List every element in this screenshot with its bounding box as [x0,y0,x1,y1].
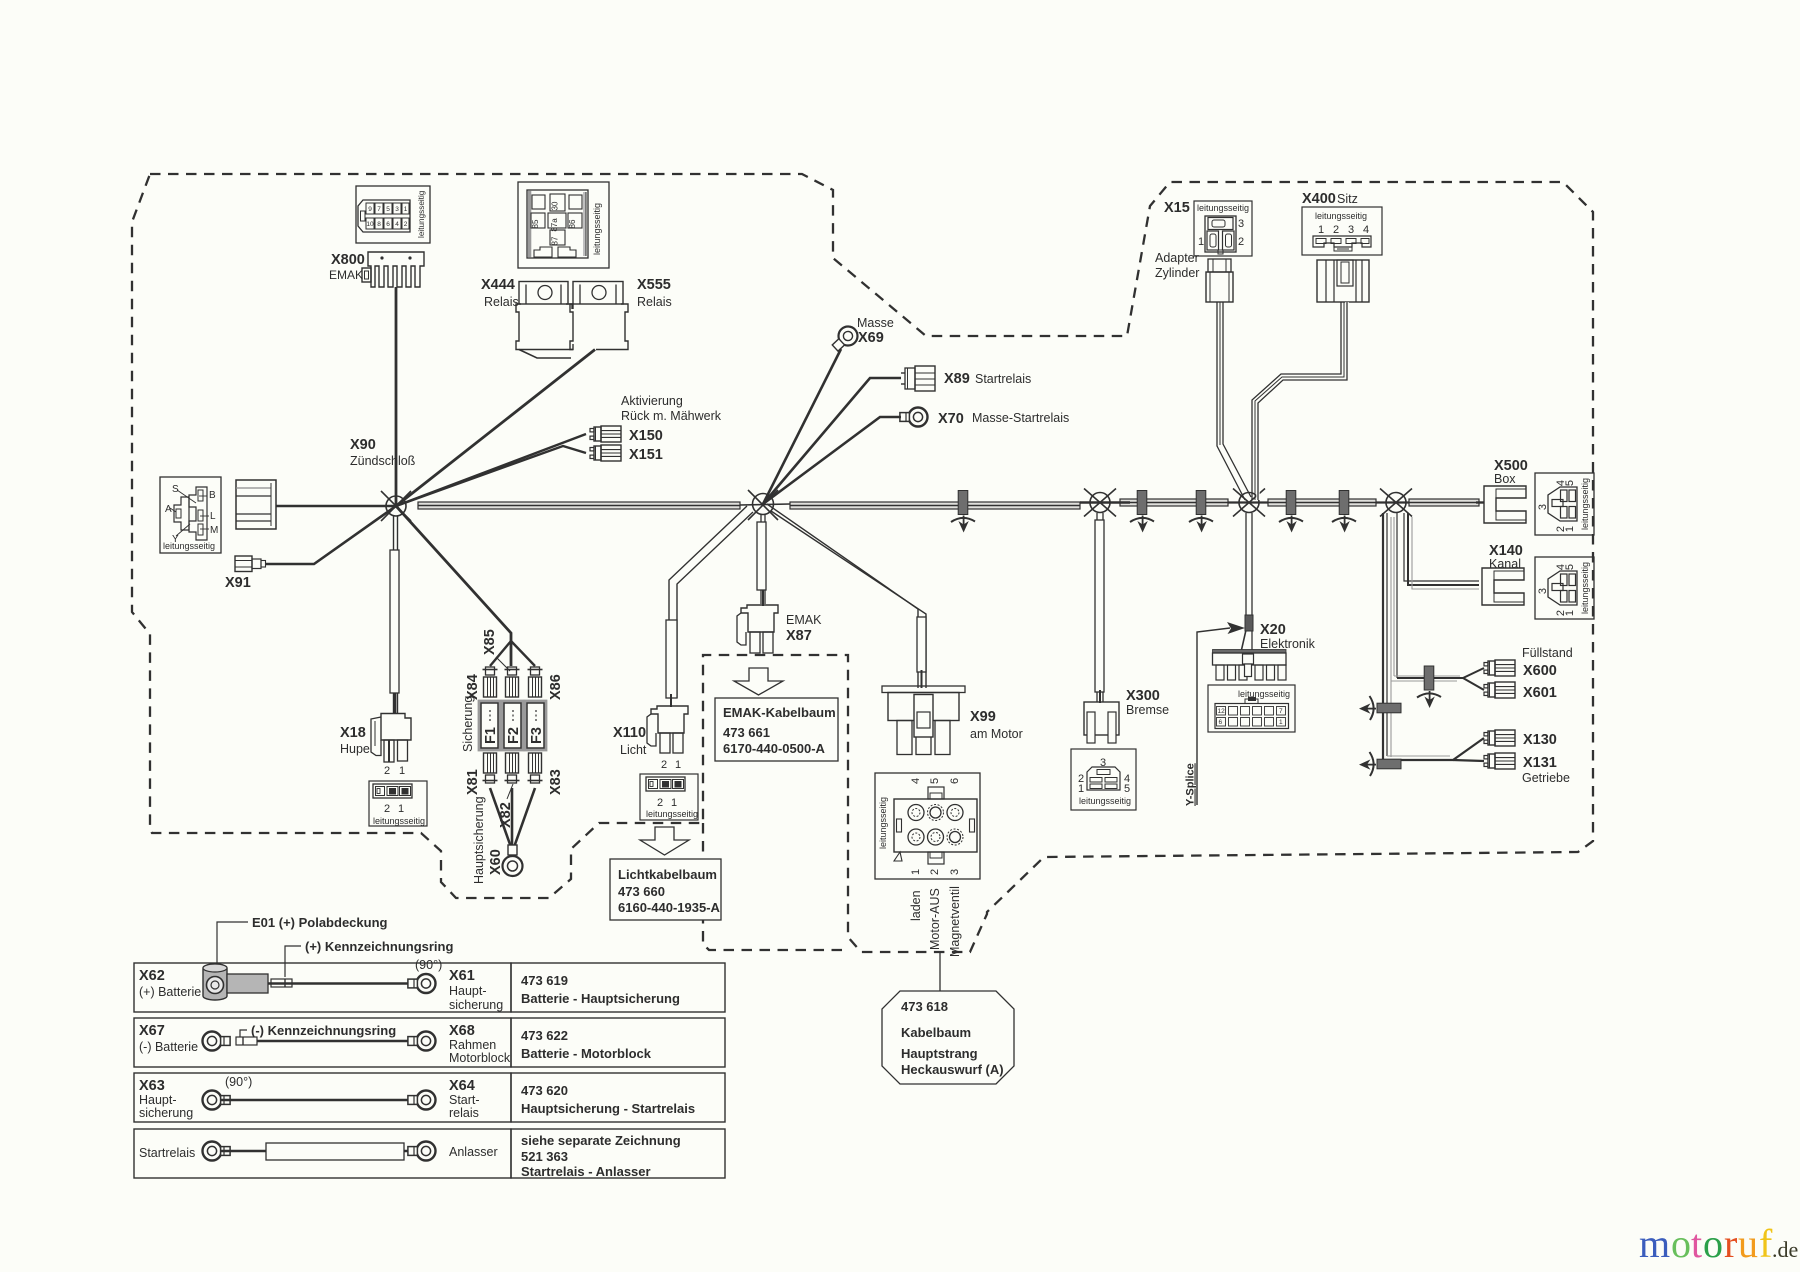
svg-text:Anlasser: Anlasser [449,1145,498,1159]
svg-text:9: 9 [368,206,372,213]
wire row1 [268,982,416,984]
relay pin box [518,182,609,268]
connector X20 [1213,622,1316,680]
svg-text:Zündschloß: Zündschloß [350,454,416,468]
X800 pin box [356,186,430,243]
svg-text:leitungsseitig: leitungsseitig [373,816,425,826]
svg-text:Hupe: Hupe [340,742,370,756]
svg-text:X89: X89 [944,371,970,387]
svg-text:Rück m. Mähwerk: Rück m. Mähwerk [621,409,722,423]
svg-text:X68: X68 [449,1023,475,1039]
svg-text:5: 5 [929,778,941,784]
svg-text:Motorblock: Motorblock [449,1051,511,1065]
svg-text:2: 2 [661,759,667,771]
svg-text:leitungsseitig: leitungsseitig [878,797,888,849]
svg-text:Kanal: Kanal [1489,557,1521,571]
central hub node [748,490,778,520]
svg-text:1: 1 [671,797,677,809]
svg-text:85: 85 [531,219,540,228]
svg-text:Box: Box [1494,472,1516,486]
bus line through central hub [740,504,790,505]
svg-text:X555: X555 [637,277,671,293]
connector X130 [1484,730,1515,746]
svg-text:2: 2 [1238,236,1244,248]
svg-text:X400: X400 [1302,191,1336,207]
svg-text:EMAK-Kabelbaum: EMAK-Kabelbaum [723,705,836,720]
connector X151 [590,445,621,461]
box Lichtkabelbaum [610,859,721,920]
svg-text:5: 5 [386,206,390,213]
svg-text:leitungsseitig: leitungsseitig [1197,203,1249,213]
wire Magnetventil pocket to octagon [939,952,941,991]
svg-text:30: 30 [551,201,560,210]
svg-text:Relais: Relais [637,295,672,309]
svg-text:473 661: 473 661 [723,725,770,740]
svg-text:4: 4 [1363,224,1369,236]
wires X81 X82 X83 to X60 [490,788,512,850]
svg-text:1: 1 [1279,719,1283,726]
svg-text:sicherung: sicherung [449,998,503,1012]
X20 pin box [1208,685,1295,732]
svg-text:4: 4 [395,221,399,228]
X140 pin box [1535,557,1594,619]
ring terminal X63 [203,1091,231,1110]
wire junction A down to X300 with sleeve [1095,513,1104,703]
svg-text:(+) Kennzeichnungsring: (+) Kennzeichnungsring [305,939,453,954]
X500 pin box [1535,473,1594,535]
svg-text:X61: X61 [449,968,475,984]
svg-text:Füllstand: Füllstand [1522,646,1573,660]
wire relays to left hub [519,350,571,359]
connector X150 [590,426,621,442]
svg-text:X444: X444 [481,277,515,293]
(-) ring marker on wire [236,1037,257,1045]
svg-text:leitungsseitig: leitungsseitig [1079,796,1131,806]
wire branch to X600 X601 [1391,668,1484,690]
svg-text:87a: 87a [550,218,559,232]
svg-text:t: t [1691,1221,1702,1266]
svg-text:Haupt-: Haupt- [139,1093,177,1107]
svg-text:Heckauswurf (A): Heckauswurf (A) [901,1062,1004,1077]
svg-text:Motor-AUS: Motor-AUS [928,888,942,950]
wire X150 to left hub [396,434,586,506]
svg-text:leitungsseitig: leitungsseitig [163,541,215,551]
(+) ring marker on wire [271,979,292,987]
label E01 (+) Polabdeckung with pointer [217,915,388,963]
svg-text:Sitz: Sitz [1337,192,1358,206]
svg-text:X81: X81 [465,769,481,795]
wire junction C bundle down [1383,513,1397,760]
bus line through junction C [1376,501,1409,503]
wire row3 [221,1099,416,1101]
svg-text:Startrelais: Startrelais [975,372,1031,386]
connector X800 [329,252,424,287]
svg-text:Masse: Masse [857,316,894,330]
svg-text:siehe separate Zeichnung: siehe separate Zeichnung [521,1133,681,1148]
wire left hub down to X18 with sleeve [390,516,399,714]
svg-text:7: 7 [377,206,381,213]
ring terminal X68 [408,1032,436,1051]
svg-text:X62: X62 [139,968,165,984]
svg-text:X130: X130 [1523,732,1557,748]
svg-text:Elektronik: Elektronik [1260,637,1316,651]
wire X89 to central hub [763,378,901,504]
svg-text:2: 2 [404,221,408,228]
motoruf.de logo [1639,1221,1798,1266]
arrow to EMAK-Kabelbaum [734,668,783,695]
svg-text:1: 1 [404,206,408,213]
main bus bar junction A to junction B [1080,499,1228,506]
svg-text:3: 3 [395,206,399,213]
connector X99 [882,686,1023,755]
svg-text:Hauptsicherung - Startrelais: Hauptsicherung - Startrelais [521,1101,695,1116]
svg-text:473 618: 473 618 [901,999,948,1014]
wire X151 to left hub [396,446,586,506]
svg-text:X87: X87 [786,628,812,644]
svg-text:EMAK: EMAK [329,268,363,282]
connector X500 [1484,458,1528,523]
cable tie left 2 on bundle [1359,752,1401,776]
wire branch to X130 X131 [1383,738,1484,761]
ring terminal X70 [900,408,928,427]
X90 pin box [160,477,221,553]
left hub node [381,491,411,521]
svg-text:X67: X67 [139,1023,165,1039]
wire branch to X140 [1404,513,1479,589]
svg-text:6170-440-0500-A: 6170-440-0500-A [723,741,826,756]
svg-text:X85: X85 [482,629,498,655]
svg-text:3: 3 [949,869,961,875]
svg-text:3: 3 [1348,224,1354,236]
svg-text:473 660: 473 660 [618,884,665,899]
cable tie on bus 2 [1130,491,1154,533]
svg-text:Hauptsicherung: Hauptsicherung [472,796,486,884]
svg-text:leitungsseitig: leitungsseitig [1238,689,1290,699]
svg-text:2: 2 [1333,224,1339,236]
table row 4 box [134,1129,511,1178]
svg-text:A: A [165,504,172,515]
wire row2 [257,1040,416,1042]
connector X18 [340,714,411,778]
Y-Splice arrow and label [1185,622,1246,806]
bus line through junction B [1228,501,1268,503]
svg-text:5: 5 [1124,783,1130,795]
connector X89 [901,366,935,391]
terminal X83 [528,753,543,783]
svg-text:am Motor: am Motor [970,727,1023,741]
relay X444 [481,277,573,350]
svg-text:F3: F3 [529,727,545,744]
cable tie on bus 1 [951,491,975,533]
svg-text:Getriebe: Getriebe [1522,771,1570,785]
wire central hub to X99 (double line with sleeve) [767,504,926,688]
wire fork to X84 X85 X86 [490,641,511,666]
svg-text:r: r [1724,1221,1737,1266]
junction B [1233,489,1265,517]
svg-text:6: 6 [1219,719,1223,726]
svg-text:12: 12 [1218,708,1226,715]
svg-text:Kabelbaum: Kabelbaum [901,1025,971,1040]
svg-text:1: 1 [1078,783,1084,795]
svg-text:X800: X800 [331,252,365,268]
wire central hub to X110 (double line with sleeve) [666,506,753,707]
svg-text:X83: X83 [548,769,564,795]
label (+) Kennzeichnungsring with pointer [285,939,453,977]
svg-text:6: 6 [386,221,390,228]
svg-text:X15: X15 [1164,200,1190,216]
svg-text:X300: X300 [1126,688,1160,704]
svg-text:(-) Batterie: (-) Batterie [139,1040,198,1054]
svg-text:10: 10 [366,221,374,228]
fuse F3 [525,701,546,750]
arrow to Lichtkabelbaum [640,827,689,855]
svg-text:4: 4 [910,778,922,784]
svg-text:3: 3 [1238,218,1244,230]
svg-text:Y-Splice: Y-Splice [1185,763,1197,806]
terminal X84 [483,667,498,697]
connector X15 [1206,259,1233,302]
svg-text:1: 1 [1198,236,1204,248]
svg-text:Haupt-: Haupt- [449,984,487,998]
svg-text:leitungsseitig: leitungsseitig [646,809,698,819]
Magnetventil pin box [875,773,980,879]
svg-text:Startrelais: Startrelais [139,1146,195,1160]
cable tie on bus 4 [1279,491,1303,533]
main bus bar junction C to X500 [1409,499,1484,506]
connector X110 [613,706,688,771]
cable tie on bus 3 [1189,491,1213,533]
wire X15 to junction B [1217,302,1251,500]
terminal X85 [505,667,520,697]
svg-text:1: 1 [1318,224,1324,236]
connector X300 [1084,688,1169,743]
terminal X81 [483,753,498,783]
svg-text:1: 1 [399,765,405,777]
svg-text:L: L [210,511,216,522]
connector X91 [225,556,266,591]
svg-text:X110: X110 [613,725,646,741]
svg-text:1: 1 [675,759,681,771]
main bus: left segment X90 to left hub [276,505,396,508]
svg-text:6160-440-1935-A: 6160-440-1935-A [618,900,721,915]
svg-text:473 619: 473 619 [521,973,568,988]
main bus bar central-hub to junction A [790,502,1080,509]
fuse F2 [502,701,523,750]
svg-text:2: 2 [384,765,390,777]
svg-text:86: 86 [568,219,577,228]
svg-text:Rahmen: Rahmen [449,1038,496,1052]
wire X91 to left hub [265,506,396,564]
svg-text:Hauptstrang: Hauptstrang [901,1046,978,1061]
svg-text:Zylinder: Zylinder [1155,266,1199,280]
svg-text:sicherung: sicherung [139,1106,193,1120]
svg-text:(-) Kennzeichnungsring: (-) Kennzeichnungsring [251,1023,396,1038]
svg-text:(+) Batterie: (+) Batterie [139,985,201,999]
svg-text:B: B [209,490,216,501]
svg-text:m: m [1639,1221,1670,1266]
svg-text:X60: X60 [488,849,504,875]
cable tie on X600 branch [1417,666,1441,708]
svg-text:Magnetventil: Magnetventil [948,886,962,957]
svg-text:laden: laden [909,890,923,921]
svg-text:473 622: 473 622 [521,1028,568,1043]
battery terminal icon [203,964,268,1000]
wire junction B down to X20 [1241,513,1253,652]
svg-text:X131: X131 [1523,755,1557,771]
fuse F1 [479,701,500,750]
svg-text:87: 87 [551,236,560,245]
junction C [1380,489,1412,517]
connector X87 EMAK [737,605,822,653]
X110 pin box [640,774,698,820]
svg-text:(90°): (90°) [415,958,442,972]
svg-text:Batterie - Hauptsicherung: Batterie - Hauptsicherung [521,991,680,1006]
wire left hub to fuse block [396,506,511,666]
wire X69 to central hub [763,349,841,504]
X400 pin box [1302,207,1382,255]
svg-text:6: 6 [949,778,961,784]
svg-text:7: 7 [1279,708,1283,715]
svg-text:X18: X18 [340,725,366,741]
X15 pin box [1194,201,1252,256]
svg-text:o: o [1703,1221,1723,1266]
svg-text:relais: relais [449,1106,479,1120]
box EMAK-Kabelbaum [715,698,838,761]
svg-text:EMAK: EMAK [786,613,822,627]
ring terminal X69 Masse [829,323,862,355]
main dashed outline [132,174,1593,952]
svg-text:.de: .de [1772,1237,1798,1262]
connector X400 [1317,260,1369,302]
svg-text:X91: X91 [225,575,251,591]
svg-text:X64: X64 [449,1078,475,1094]
svg-text:Bremse: Bremse [1126,703,1169,717]
relay X555 [570,277,672,350]
cable tie on bus 5 [1332,491,1356,533]
ring terminal X60 [503,845,523,876]
table row 1 box [134,963,511,1012]
svg-text:Sicherung: Sicherung [461,696,475,752]
svg-text:521 363: 521 363 [521,1149,568,1164]
main bus bar left-hub to central-hub [418,502,740,509]
svg-text:leitungsseitig: leitungsseitig [592,203,602,255]
table row 2 box [134,1018,511,1067]
connector X131 [1484,753,1515,769]
wire central hub down to X87 [757,515,766,606]
ring terminal X64 [408,1091,436,1110]
svg-text:Aktivierung: Aktivierung [621,394,683,408]
svg-text:o: o [1671,1221,1691,1266]
X18 pin box [369,781,427,826]
wire X800 to left hub [395,287,398,506]
ring terminal left row4 [203,1142,231,1161]
svg-text:1: 1 [398,803,404,815]
cable tie left 1 on bundle [1359,696,1401,720]
wire X70 to central hub [763,417,901,504]
terminal X82 [505,753,520,783]
svg-text:leitungsseitig: leitungsseitig [1315,211,1367,221]
terminal X86 [528,667,543,697]
svg-text:X600: X600 [1523,663,1557,679]
connector X140 [1482,543,1524,605]
svg-text:X63: X63 [139,1078,165,1094]
svg-text:(90°): (90°) [225,1075,252,1089]
dashed EMAK pocket lower edges [703,823,848,950]
svg-text:leitungsseitig: leitungsseitig [417,190,426,238]
junction A [1084,489,1116,517]
svg-text:Startrelais - Anlasser: Startrelais - Anlasser [521,1164,651,1179]
svg-text:X99: X99 [970,709,996,725]
svg-text:X601: X601 [1523,685,1557,701]
svg-text:2: 2 [384,803,390,815]
connector X601 [1484,682,1515,698]
ring terminal right row4 [408,1142,436,1161]
ring terminal X67 [203,1032,231,1051]
main bus bar junction B to junction C [1268,499,1376,506]
svg-text:M: M [210,525,218,536]
octagon box 473 618 [882,991,1014,1084]
svg-text:X70: X70 [938,411,964,427]
svg-text:u: u [1738,1221,1758,1266]
svg-text:Batterie - Motorblock: Batterie - Motorblock [521,1046,652,1061]
svg-text:Licht: Licht [620,743,647,757]
svg-text:X150: X150 [629,428,663,444]
svg-text:1: 1 [910,869,922,875]
svg-text:S: S [172,484,179,495]
connector X600 [1484,660,1515,676]
X300 pin box [1071,749,1136,810]
table row 3 box [134,1073,511,1122]
svg-text:2: 2 [657,797,663,809]
svg-text:E01 (+) Polabdeckung: E01 (+) Polabdeckung [252,915,388,930]
wire X400 to junction B [1252,302,1347,500]
svg-text:F2: F2 [506,727,522,744]
svg-text:X90: X90 [350,437,376,453]
svg-text:2: 2 [929,869,941,875]
svg-text:X69: X69 [858,330,884,346]
svg-text:Adapter: Adapter [1155,251,1199,265]
svg-text:Lichtkabelbaum: Lichtkabelbaum [618,867,717,882]
svg-text:473 620: 473 620 [521,1083,568,1098]
connector X90 [236,437,416,529]
svg-text:8: 8 [377,221,381,228]
svg-text:X151: X151 [629,447,663,463]
svg-text:X86: X86 [548,674,564,700]
ring terminal X61 [408,974,436,993]
svg-text:Relais: Relais [484,295,519,309]
svg-text:Start-: Start- [449,1093,480,1107]
svg-text:f: f [1759,1221,1773,1266]
wire row4 with sleeve [221,1150,416,1152]
svg-text:F1: F1 [483,727,499,744]
svg-text:X20: X20 [1260,622,1286,638]
svg-text:Masse-Startrelais: Masse-Startrelais [972,411,1069,425]
